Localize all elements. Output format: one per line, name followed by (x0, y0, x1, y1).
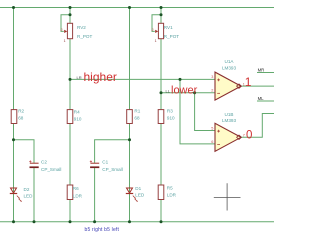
svg-text:R5: R5 (167, 185, 173, 190)
junction top rail at RV2 column (69, 6, 72, 9)
svg-text:ML: ML (258, 96, 265, 101)
wire top VCC rail (0, 7, 274, 9)
junction R2/D2 node (12, 138, 15, 141)
svg-text:R1: R1 (134, 108, 140, 113)
svg-text:7: 7 (243, 134, 245, 138)
svg-text:D2: D2 (24, 187, 30, 192)
wire column R1/D1 chain (129, 8, 131, 222)
wire C1 top lead L-shape (95, 140, 130, 163)
junction node lower (160, 91, 163, 94)
junction GND rail at C2 (33, 220, 36, 223)
LED D1 (126, 186, 145, 202)
wire column R2/D2 chain (13, 8, 15, 222)
svg-text:lower: lower (171, 85, 198, 97)
junction GND rail at R6 column (69, 220, 72, 223)
wire bottom GND rail (0, 221, 274, 223)
svg-text:LDR: LDR (167, 193, 177, 198)
svg-text:CP_Small: CP_Small (102, 167, 122, 172)
cursor crosshair (214, 183, 241, 210)
svg-text:higher: higher (84, 70, 117, 84)
svg-text:R_POT: R_POT (164, 34, 180, 39)
svg-text:910: 910 (167, 116, 175, 121)
potentiometer RV2 (60, 23, 92, 43)
svg-text:MR: MR (258, 68, 265, 73)
svg-text:68: 68 (18, 116, 24, 121)
wire RV1 wiper loop (152, 15, 161, 32)
wire net higher to U1A pin3 (70, 78, 215, 80)
wire MR stub (257, 72, 274, 74)
junction RV1 loop (160, 13, 163, 16)
wire column RV2/R4/R6 chain (69, 8, 71, 222)
svg-text:D1: D1 (135, 186, 141, 191)
wire ML stub (257, 100, 274, 102)
svg-text:R2: R2 (18, 108, 24, 113)
svg-text:LED: LED (135, 193, 145, 198)
svg-text:LM393: LM393 (222, 65, 236, 70)
photoresistor R5 (158, 185, 176, 200)
svg-text:R3: R3 (167, 108, 173, 113)
resistor R3 (158, 108, 175, 123)
svg-text:U1B: U1B (225, 112, 234, 117)
svg-text:3: 3 (211, 75, 213, 79)
wire column RV1/R3/R5 chain (160, 8, 162, 222)
resistor R1 (127, 108, 141, 123)
wire C2 top lead L-shape (14, 140, 35, 163)
wire higher branch to U1B pin6 (180, 79, 215, 143)
resistor R4 (67, 109, 82, 123)
svg-text:LR: LR (77, 75, 82, 80)
junction lower branch (193, 91, 196, 94)
svg-text:2: 2 (60, 28, 62, 32)
svg-text:68: 68 (134, 116, 140, 121)
svg-text:U1A: U1A (225, 59, 235, 64)
svg-text:0: 0 (246, 130, 252, 142)
junction R1/D1 node (128, 138, 131, 141)
svg-text:910: 910 (74, 117, 82, 122)
wire lower branch to U1B pin5 (195, 93, 215, 131)
potentiometer RV1 (151, 23, 179, 43)
svg-text:2: 2 (211, 89, 213, 93)
junction node higher (69, 78, 72, 81)
svg-text:LL: LL (166, 88, 171, 93)
svg-text:5: 5 (211, 126, 213, 130)
svg-text:CP_Small: CP_Small (41, 167, 61, 172)
photoresistor R6 (67, 185, 82, 200)
svg-text:LM393: LM393 (222, 118, 236, 123)
junction RV2 loop (69, 13, 72, 16)
svg-text:LED: LED (24, 193, 34, 198)
svg-text:R_POT: R_POT (77, 34, 93, 39)
svg-text:1: 1 (64, 39, 66, 43)
svg-text:2: 2 (151, 28, 153, 32)
resistor R2 (11, 108, 24, 123)
junction GND rail at R2 column (12, 220, 15, 223)
junction top rail at R1 column (128, 6, 131, 9)
junction higher branch (179, 78, 182, 81)
svg-text:R4: R4 (74, 109, 80, 114)
wire U1A output (241, 85, 274, 87)
junction top rail at R2 column (12, 6, 15, 9)
wire net lower to U1A pin2 (161, 92, 215, 94)
svg-text:6: 6 (211, 140, 213, 144)
junction top rail at RV1 column (160, 6, 163, 9)
junction GND rail at D1 column (128, 220, 131, 223)
op-amp U1B LM393 (211, 112, 245, 151)
svg-text:RV1: RV1 (164, 25, 173, 30)
svg-text:LDR: LDR (73, 193, 83, 198)
junction GND rail at C1 (93, 220, 96, 223)
wire U1B output staircase (241, 114, 274, 138)
svg-text:1: 1 (155, 39, 157, 43)
svg-text:b5 right b5 left: b5 right b5 left (85, 227, 120, 233)
wire RV2 wiper loop (61, 15, 70, 32)
wire C2 bottom lead (33, 168, 35, 222)
svg-text:C2: C2 (41, 159, 47, 164)
wire C1 bottom lead (94, 168, 96, 222)
svg-text:R6: R6 (73, 186, 79, 191)
junction GND rail at R5 column (160, 220, 163, 223)
LED D2 (10, 187, 33, 202)
svg-text:RV2: RV2 (77, 25, 86, 30)
capacitor C2 (29, 159, 61, 172)
op-amp U1A LM393 (211, 59, 245, 100)
svg-text:C1: C1 (102, 159, 108, 164)
svg-text:1: 1 (245, 75, 252, 89)
capacitor C1 (90, 159, 123, 172)
